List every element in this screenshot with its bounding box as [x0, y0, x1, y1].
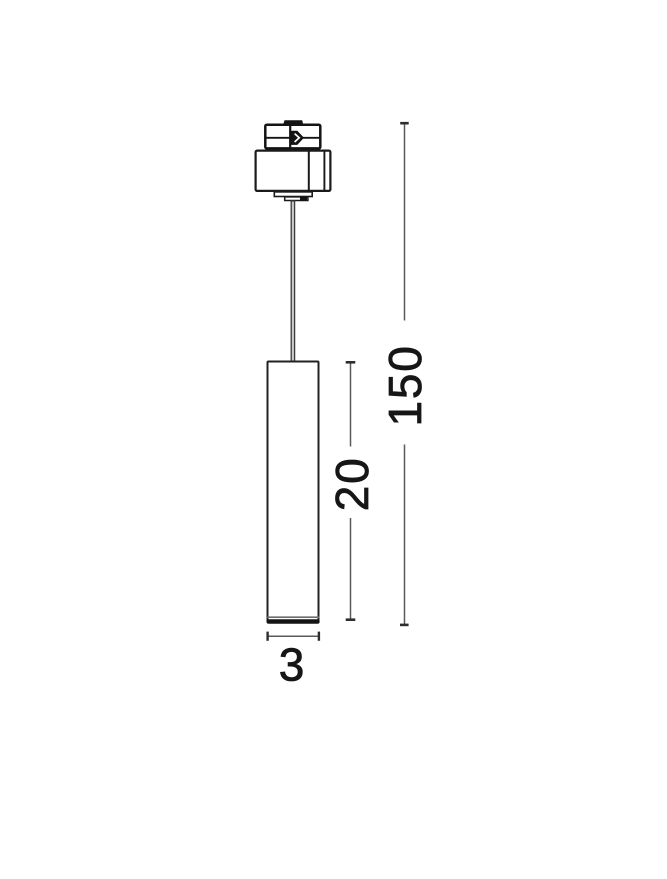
dim 150 bottom tick	[400, 624, 409, 627]
upper box horizontal divider	[265, 137, 321, 139]
body front-face right edge	[308, 150, 310, 192]
arrow marker	[290, 131, 304, 145]
body second divider	[323, 150, 325, 192]
dimension line 20 upper segment	[350, 362, 352, 446]
svg-text:20: 20	[326, 457, 378, 512]
bottom step 2 dark block	[300, 197, 307, 201]
dimension line 150 lower segment	[404, 445, 406, 625]
track adapter upper box	[265, 125, 320, 149]
bottom step 2	[285, 197, 308, 201]
cylinder bottom black band	[267, 619, 320, 624]
dimension line 20 lower segment	[350, 518, 352, 620]
dim 150 top tick	[400, 122, 409, 125]
dim 20 bottom tick	[346, 618, 356, 621]
cylinder lower seam line	[267, 616, 319, 618]
track adapter top tab	[283, 120, 303, 124]
suspension cord	[291, 201, 294, 362]
bottom step 1	[274, 192, 312, 197]
main adapter body	[256, 151, 331, 191]
svg-text:150: 150	[379, 344, 431, 426]
dim 20 top tick	[346, 361, 356, 364]
dimension line 150 upper segment	[404, 123, 406, 320]
dim 3 right tick	[318, 632, 320, 641]
dimension line 3	[268, 635, 319, 637]
dim 3 left tick	[266, 632, 268, 641]
cylinder pendant body	[268, 362, 319, 623]
arrow white chevron	[295, 134, 300, 142]
upper box vertical divider	[289, 125, 291, 149]
svg-text:3: 3	[279, 639, 305, 691]
